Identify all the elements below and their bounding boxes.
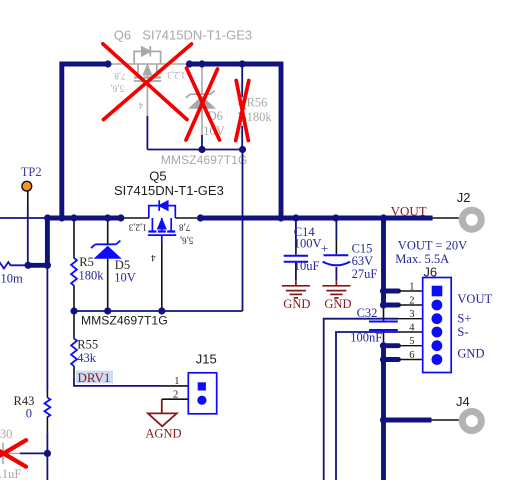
transistor Q5 leads: [122, 218, 201, 311]
connector J4: [432, 394, 482, 430]
wire VOUT bus to J6: [384, 218, 399, 305]
capacitor C15: [321, 218, 377, 281]
net label DRV1: [76, 370, 113, 385]
svg-text:4: 4: [151, 253, 156, 263]
svg-text:0.1uF: 0.1uF: [0, 467, 21, 480]
svg-text:DRV1: DRV1: [78, 370, 111, 385]
svg-text:4: 4: [138, 101, 143, 111]
red cross over Q6: [103, 44, 192, 120]
wire J15 pin2 to AGND: [162, 398, 189, 400]
svg-text:180k: 180k: [247, 110, 273, 124]
svg-text:3: 3: [409, 309, 414, 320]
connector J6: [423, 264, 452, 372]
svg-text:S-: S-: [457, 325, 468, 339]
capacitor C30 not fitted: [0, 427, 21, 480]
svg-text:100V: 100V: [294, 237, 322, 251]
svg-text:10V: 10V: [114, 270, 136, 284]
red cross over C30: [0, 440, 26, 467]
svg-text:10m: 10m: [1, 271, 24, 285]
svg-text:R55: R55: [77, 337, 98, 351]
svg-text:5,6,: 5,6,: [111, 84, 125, 94]
transistor Q6 not fitted: [134, 46, 161, 116]
label MMSZ4697T1G gray: [161, 153, 248, 167]
svg-text:J15: J15: [196, 351, 217, 366]
wire top rail gray segment under Q6: [108, 63, 187, 65]
ground GND C15: [322, 280, 350, 298]
connector J2: [433, 190, 482, 229]
svg-text:0: 0: [26, 406, 32, 420]
resistor R5: [71, 218, 104, 311]
svg-text:5,6,: 5,6,: [180, 235, 194, 245]
svg-text:+: +: [321, 241, 328, 256]
wire GND bus J6 to J4: [384, 346, 432, 480]
svg-text:43k: 43k: [77, 351, 97, 365]
svg-text:GND: GND: [283, 297, 310, 311]
wire sense column down: [46, 265, 48, 480]
wire main rail right thick VOUT: [199, 216, 433, 221]
wire gate net vertical to bottom node: [74, 150, 243, 312]
svg-text:MMSZ4697T1G: MMSZ4697T1G: [161, 153, 248, 167]
capacitor C14: [284, 218, 322, 280]
svg-text:TP2: TP2: [21, 165, 42, 179]
svg-text:7,8: 7,8: [178, 222, 190, 232]
svg-text:5: 5: [409, 336, 414, 347]
svg-text:R56: R56: [247, 95, 268, 109]
svg-text:7,8: 7,8: [114, 71, 126, 81]
svg-text:VOUT: VOUT: [457, 292, 492, 306]
svg-text:SI7415DN-T1-GE3: SI7415DN-T1-GE3: [114, 183, 224, 198]
net label VOUT: [391, 203, 427, 218]
transistor Q5 labels: [114, 169, 224, 263]
svg-text:27uF: 27uF: [352, 267, 378, 281]
wire top rail right thick: [187, 62, 284, 218]
zener D5: [91, 218, 136, 311]
red cross over R56: [236, 81, 249, 141]
wire S+ net: [324, 319, 398, 480]
svg-text:6: 6: [409, 350, 414, 361]
svg-text:Q5: Q5: [149, 169, 166, 184]
svg-text:10uF: 10uF: [294, 259, 320, 273]
svg-text:2: 2: [409, 296, 414, 307]
resistor R55: [71, 311, 98, 378]
svg-text:C15: C15: [352, 241, 373, 255]
transistor Q6 labels: [111, 28, 253, 111]
wire input rail thin: [0, 217, 47, 219]
wire J6 pin leads: [398, 291, 423, 360]
wire main rail left thick: [45, 216, 123, 221]
svg-text:C30: C30: [0, 427, 12, 441]
resistor R43: [14, 394, 51, 421]
J6 pin numbers: [409, 282, 415, 362]
wire top rail left thick: [62, 64, 108, 218]
svg-text:4: 4: [409, 323, 415, 334]
svg-text:63V: 63V: [352, 254, 374, 268]
transistor Q5: [148, 200, 176, 242]
svg-text:J4: J4: [456, 394, 470, 409]
svg-text:Q6: Q6: [114, 28, 131, 43]
ground AGND: [145, 399, 181, 440]
ground GND C14: [282, 280, 310, 298]
wire C30 node: [0, 452, 47, 454]
svg-text:MMSZ4697T1G: MMSZ4697T1G: [81, 314, 168, 328]
svg-text:1: 1: [409, 282, 414, 293]
note VOUT spec: [395, 238, 467, 266]
svg-text:AGND: AGND: [145, 427, 181, 441]
wire DRV1 to J15: [74, 378, 189, 386]
label MMSZ4697T1G black: [81, 314, 168, 328]
svg-text:GND: GND: [457, 347, 484, 361]
wire S- net: [336, 332, 398, 480]
svg-text:1,2,3: 1,2,3: [167, 70, 186, 80]
svg-text:J2: J2: [457, 190, 471, 205]
J6 side labels: [457, 292, 492, 361]
svg-text:1: 1: [174, 376, 179, 387]
connector J15: [173, 351, 217, 414]
resistor 10m shunt: [0, 262, 28, 285]
svg-text:180k: 180k: [79, 268, 105, 282]
svg-text:J6: J6: [423, 264, 437, 279]
capacitor C32: [350, 305, 398, 346]
testpoint TP2: [21, 165, 42, 191]
svg-text:2: 2: [173, 390, 178, 401]
svg-text:VOUT: VOUT: [391, 203, 427, 218]
wire sense branch thick: [27, 218, 48, 265]
red cross over D6: [186, 68, 220, 140]
wire Q6 gate to node: [147, 116, 242, 150]
svg-text:GND: GND: [324, 297, 351, 311]
zener D6 not fitted: [186, 66, 225, 150]
svg-text:SI7415DN-T1-GE3: SI7415DN-T1-GE3: [142, 28, 252, 43]
svg-text:Max. 5.5A: Max. 5.5A: [395, 252, 449, 266]
resistor R56 not fitted: [239, 66, 272, 150]
svg-text:R5: R5: [79, 255, 94, 269]
wire TP2 lead: [27, 192, 29, 266]
svg-text:S+: S+: [457, 312, 471, 326]
svg-text:1,2,3: 1,2,3: [128, 222, 147, 232]
svg-text:VOUT = 20V: VOUT = 20V: [398, 238, 467, 252]
